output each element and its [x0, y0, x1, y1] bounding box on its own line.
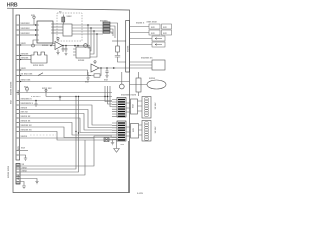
wire input 3 — [20, 34, 34, 36]
svg-text:xxxx: xxxx — [22, 169, 28, 172]
svg-text:HRB: HRB — [7, 3, 18, 9]
svg-text:xxxxxxxx x: xxxxxxxx x — [21, 102, 34, 105]
comp at 46 — [45, 92, 47, 97]
junction dots — [87, 24, 98, 35]
wire stack labels mid-left — [20, 100, 112, 102]
box mid2 — [131, 124, 139, 139]
ext box right — [130, 61, 153, 63]
svg-text:xxxx xxxx: xxxx xxxx — [147, 21, 158, 24]
svg-text:xxx xx: xxx xx — [154, 127, 157, 134]
long wire row 75.5 — [20, 75, 91, 77]
U1 output wires — [53, 23, 63, 25]
svg-text:xxxx xxx: xxxx xxx — [42, 87, 52, 90]
svg-text:xxx xx: xxx xx — [154, 103, 157, 110]
svg-text:xxxxx: xxxxx — [111, 136, 117, 138]
top-right pin table — [149, 24, 172, 47]
svg-text:xxxxxxx: xxxxxxx — [21, 32, 31, 35]
gnd wire 178.5 — [21, 179, 39, 184]
connector bar second left — [16, 164, 20, 185]
svg-text:xxxxx xx: xxxxx xx — [21, 120, 32, 123]
right connector bar J2 — [126, 21, 130, 73]
arrow on wire to bar — [113, 67, 115, 69]
vcc above A2 — [94, 63, 96, 64]
bar pin ticks — [17, 25, 20, 182]
small comp above wire92 — [26, 90, 28, 93]
arrowheads into U1 — [35, 24, 37, 36]
drop wires from dots to sub box — [88, 25, 90, 48]
verticals from above — [105, 86, 112, 102]
svg-text:x-xxx: x-xxx — [137, 192, 144, 195]
svg-text:xxxxx: xxxxx — [78, 59, 85, 62]
svg-text:xxxxxx: xxxxxx — [21, 57, 29, 60]
comb connector P1 — [117, 98, 126, 118]
svg-text:xxxx: xxxx — [17, 174, 20, 180]
group label 1 — [121, 94, 137, 97]
svg-text:xxxxxxx xx: xxxxxxx xx — [141, 57, 153, 60]
wire 138 — [20, 137, 94, 139]
bottom mid component row — [104, 139, 126, 141]
crystal symbol inside — [62, 15, 64, 18]
IC U1 — [37, 21, 53, 43]
svg-text:xxxx: xxxx — [21, 67, 27, 70]
long wire row 70 — [20, 70, 88, 76]
op-amp output wire — [63, 45, 91, 47]
module inner box — [63, 24, 72, 36]
tiny labels: components — [31, 11, 145, 99]
svg-text:xxxx: xxxx — [17, 89, 20, 95]
svg-text:xxxxx xx: xxxxx xx — [21, 115, 32, 118]
svg-text:xxxx: xxxx — [21, 42, 27, 45]
mid column component — [121, 72, 123, 84]
svg-text:xxxxxx: xxxxxx — [100, 20, 108, 23]
tiny labels: left wire stack top — [21, 22, 34, 172]
box mid1 — [131, 99, 138, 114]
comb1 left stubs — [112, 100, 117, 117]
svg-text:xxxxxxx: xxxxxxx — [21, 27, 31, 30]
right frame lower vertical — [128, 141, 130, 193]
ground below op-amp — [56, 50, 59, 55]
page number — [137, 192, 144, 195]
svg-text:xxxxx xxxx: xxxxx xxxx — [7, 165, 10, 178]
svg-text:xxxxx xxxxx: xxxxx xxxxx — [10, 81, 13, 95]
crown component K1 — [31, 52, 47, 63]
power symbol VCC top — [33, 19, 35, 26]
long verticals to bottom bar — [21, 97, 77, 170]
gnd wire 181.5 — [21, 182, 27, 189]
svg-text:xxxxx: xxxxx — [21, 135, 28, 138]
mid box — [136, 78, 141, 92]
filter chain down — [117, 41, 119, 46]
svg-text:xxxxx x: xxxxx x — [136, 22, 145, 25]
long wire row 81.5 — [20, 81, 130, 83]
wire input 2 — [20, 29, 34, 31]
svg-text:xxxxx: xxxxx — [42, 44, 49, 47]
rotated margin texts — [7, 45, 135, 180]
svg-text:xxxxxxx: xxxxxxx — [21, 22, 31, 25]
fold dashes — [30, 134, 56, 136]
svg-text:xxxxxx: xxxxxx — [21, 53, 29, 56]
dashed module box — [57, 13, 82, 41]
caps to ground on output — [62, 45, 79, 56]
vcc above op-amp — [57, 40, 59, 42]
svg-text:xxx xx: xxx xx — [21, 111, 29, 114]
ground circle under U1 — [33, 40, 37, 44]
connector bar J1 left — [16, 15, 20, 160]
transistor circle Q1 — [84, 44, 88, 48]
svg-text:x xx xxx x: x xx xxx x — [31, 96, 41, 98]
nest wires — [20, 105, 112, 125]
op-amp A2 — [91, 64, 99, 72]
svg-text:xxxxxx xx: xxxxxx xx — [21, 124, 33, 127]
svg-text:xxxxx: xxxxx — [126, 45, 129, 52]
feedback resistor — [100, 68, 101, 76]
module output wires — [72, 24, 103, 26]
wires after pack merging to right bar — [110, 23, 118, 41]
wire 150 small — [20, 150, 28, 152]
wire op-amp row — [20, 44, 51, 46]
resistor pack RN1 — [103, 22, 110, 33]
comb connector P2 — [117, 121, 126, 141]
svg-text:xxxx xxx: xxxx xxx — [21, 79, 32, 82]
title HRB — [7, 3, 18, 9]
svg-text:xxxx xxxx: xxxx xxxx — [33, 64, 44, 67]
wires bar to top-right table — [130, 26, 150, 28]
sub box U3 — [76, 47, 90, 58]
U1 pin ticks — [37, 24, 53, 40]
svg-text:xxxx: xxxx — [67, 15, 73, 18]
wire row 92.5 — [20, 92, 112, 94]
crown wires — [20, 55, 31, 57]
wire 155 + gnd — [20, 155, 28, 160]
pins box right1 — [142, 97, 151, 119]
svg-text:xx xxx xxx: xx xxx xxx — [21, 73, 34, 76]
svg-text:xxxxx: xxxxx — [21, 107, 28, 110]
svg-text:xxxxxxxx xxxx: xxxxxxxx xxxx — [121, 94, 137, 97]
op-amp A1 — [55, 42, 63, 50]
wire input 1 — [20, 24, 34, 26]
cap C on A2 output — [106, 67, 108, 69]
speaker oval — [130, 84, 148, 86]
svg-text:xxxxxx xx: xxxxxx xx — [21, 129, 33, 132]
wire row 96.5 — [50, 96, 112, 98]
ground A2 — [86, 76, 89, 81]
pins box right2 — [142, 121, 151, 142]
svg-text:xxxxx: xxxxx — [149, 77, 156, 80]
